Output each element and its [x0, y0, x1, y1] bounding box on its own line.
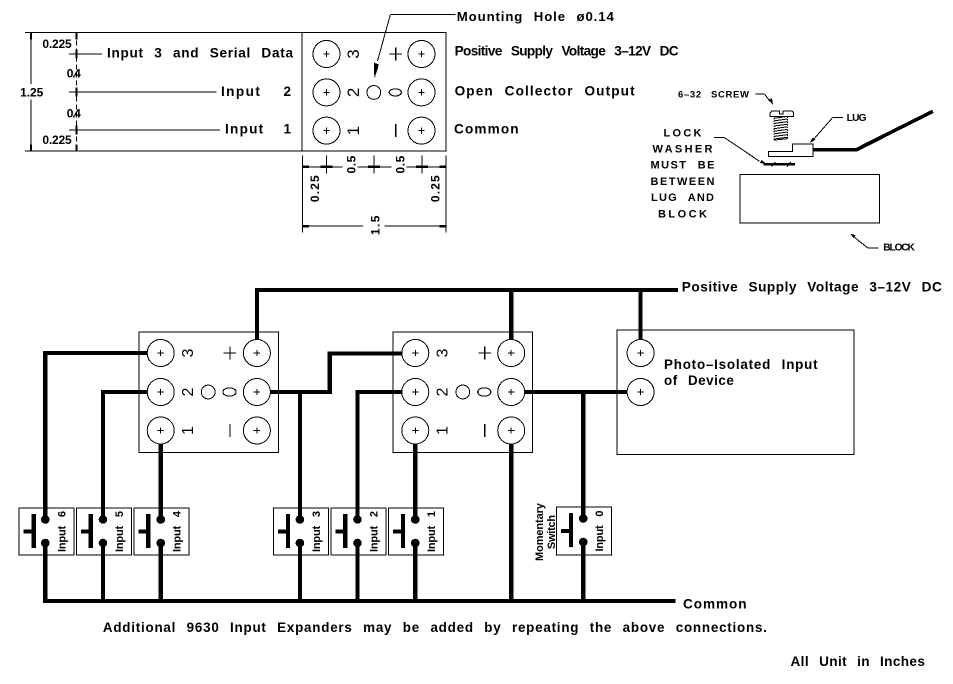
svg-text:of Device: of Device [664, 373, 734, 388]
svg-text:Additional 9630 Input Expander: Additional 9630 Input Expanders may be a… [103, 620, 767, 635]
svg-text:Input 5: Input 5 [114, 511, 126, 552]
svg-text:LOCK: LOCK [664, 128, 702, 140]
svg-text:Positive Supply Voltage 3–12V: Positive Supply Voltage 3–12V DC [455, 43, 679, 58]
svg-text:1: 1 [434, 426, 451, 435]
svg-text:0.25: 0.25 [308, 175, 322, 202]
svg-text:0.225: 0.225 [42, 37, 72, 51]
svg-text:Positive Supply Voltage 3–12V: Positive Supply Voltage 3–12V DC [682, 280, 942, 295]
svg-text:0.5: 0.5 [345, 155, 359, 173]
svg-text:1: 1 [180, 426, 197, 435]
svg-text:Input 3 and Serial Data: Input 3 and Serial Data [107, 46, 293, 61]
svg-text:Input 0: Input 0 [594, 511, 606, 552]
svg-text:0.4: 0.4 [67, 107, 81, 121]
svg-text:Input 1: Input 1 [426, 511, 438, 552]
svg-text:Common: Common [454, 122, 519, 137]
svg-text:1: 1 [344, 126, 363, 135]
svg-text:Input 2: Input 2 [368, 511, 380, 552]
svg-text:Switch: Switch [546, 515, 558, 549]
svg-text:0.25: 0.25 [428, 175, 442, 202]
svg-text:LUG: LUG [847, 113, 867, 124]
svg-text:Input 1: Input 1 [225, 122, 291, 137]
svg-text:Input 6: Input 6 [57, 511, 69, 552]
svg-text:Input 4: Input 4 [171, 510, 183, 552]
svg-text:Input 2: Input 2 [221, 84, 291, 99]
svg-text:2: 2 [344, 88, 363, 97]
svg-text:BLOCK: BLOCK [658, 209, 707, 221]
svg-text:BETWEEN: BETWEEN [651, 176, 715, 188]
svg-text:Photo–Isolated Input: Photo–Isolated Input [664, 357, 818, 372]
svg-text:WASHER: WASHER [653, 144, 713, 156]
svg-text:3: 3 [344, 49, 363, 58]
svg-text:3: 3 [180, 348, 197, 357]
svg-text:Common: Common [683, 597, 747, 612]
svg-text:2: 2 [180, 387, 197, 396]
svg-text:0.225: 0.225 [42, 133, 72, 147]
svg-text:BLOCK: BLOCK [883, 243, 915, 254]
svg-text:LUG AND: LUG AND [651, 192, 714, 204]
svg-text:6–32 SCREW: 6–32 SCREW [678, 89, 749, 100]
svg-text:3: 3 [434, 348, 451, 357]
svg-text:All Unit in Inches: All Unit in Inches [791, 654, 925, 669]
svg-text:Mounting Hole ø0.14: Mounting Hole ø0.14 [457, 9, 615, 24]
svg-text:Momentary: Momentary [534, 502, 546, 561]
svg-text:Input 3: Input 3 [311, 511, 323, 552]
svg-text:Open Collector Output: Open Collector Output [455, 84, 635, 99]
svg-text:0.4: 0.4 [67, 67, 81, 81]
svg-text:1.25: 1.25 [20, 86, 44, 100]
svg-text:MUST BE: MUST BE [651, 160, 715, 172]
svg-text:0.5: 0.5 [394, 155, 408, 173]
svg-text:1.5: 1.5 [369, 215, 383, 235]
svg-text:2: 2 [434, 387, 451, 396]
